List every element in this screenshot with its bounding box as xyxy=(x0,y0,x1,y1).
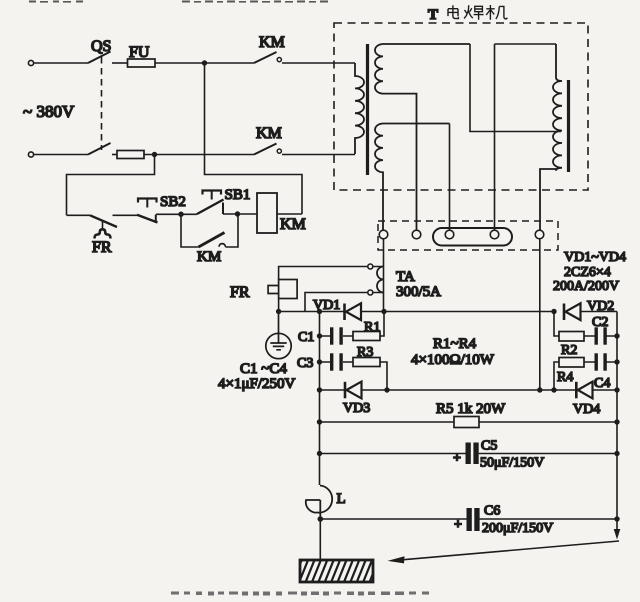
snubber branch R3 drop xyxy=(380,362,387,390)
wire FU2 to KM pole2 xyxy=(144,154,254,156)
rail end arrowhead xyxy=(614,529,621,540)
node C6 right junction xyxy=(614,516,619,521)
wire secondary upper to reactor link xyxy=(470,44,561,132)
wire QS2 to FU2 xyxy=(112,154,117,156)
capacitor C1 xyxy=(320,327,354,344)
dashed link of QS poles xyxy=(101,57,103,150)
node C4 rail junction xyxy=(614,359,619,364)
svg-text:KM: KM xyxy=(280,216,306,233)
svg-text:4×1μF/250V: 4×1μF/250V xyxy=(218,376,296,392)
transformer T secondary winding lower xyxy=(375,124,450,231)
capacitor C4 xyxy=(584,353,617,370)
wire bottom bus VD3 row xyxy=(320,389,555,391)
heater element FR xyxy=(268,280,297,299)
wire QS1 to FU1 xyxy=(112,62,128,64)
wire SB1 to node D xyxy=(223,213,257,215)
wire node E to left rail xyxy=(279,311,320,313)
contactor contact KM main pole 2 xyxy=(254,144,281,155)
wire R5 row xyxy=(320,421,618,423)
auxiliary contact KM (self-hold) xyxy=(181,214,199,247)
workpiece hatched plate xyxy=(292,558,379,584)
wire control branch right drop from node A xyxy=(205,63,303,214)
node C junction xyxy=(178,212,183,217)
wire T5 down xyxy=(539,239,541,390)
transformer T secondary winding upper xyxy=(375,44,470,230)
wire L2 to QS xyxy=(34,154,88,156)
svg-text:C1: C1 xyxy=(298,330,314,345)
inductor L welding loop xyxy=(306,486,332,517)
switch QS pole 2 xyxy=(88,143,111,155)
transformer T primary winding xyxy=(355,63,364,154)
terminal 2 xyxy=(412,230,421,239)
svg-text:300/5A: 300/5A xyxy=(396,284,441,300)
svg-text:C2: C2 xyxy=(592,315,608,330)
resistor R1 xyxy=(353,332,380,341)
svg-text:R3: R3 xyxy=(357,345,373,360)
svg-text:50μF/150V: 50μF/150V xyxy=(480,456,544,471)
thermal release symbol FR xyxy=(95,221,111,239)
svg-text:VD3: VD3 xyxy=(343,401,370,416)
terminal L1 xyxy=(28,60,33,65)
diode VD1 xyxy=(345,303,362,320)
node VD2 left junction xyxy=(551,309,556,314)
capacitor C6 electrolytic xyxy=(454,508,480,533)
resistor R4 xyxy=(559,358,584,368)
svg-text:C4: C4 xyxy=(594,376,610,391)
capacitor C2 xyxy=(584,327,617,344)
wire FR to SB2 xyxy=(113,214,138,216)
terminal 1 xyxy=(379,230,388,239)
transformer T core bar left xyxy=(366,44,369,175)
wire coil to right drop xyxy=(277,213,302,215)
svg-text:KM: KM xyxy=(256,125,282,142)
svg-text:VD1: VD1 xyxy=(313,298,340,313)
wire T4 column xyxy=(495,44,557,230)
svg-text:C1 ~C4: C1 ~C4 xyxy=(240,361,287,377)
top cropped caption remnants xyxy=(29,1,328,3)
svg-text:+: + xyxy=(454,518,462,533)
svg-text:QS: QS xyxy=(91,38,111,55)
right rail xyxy=(616,312,618,532)
node C5 left junction xyxy=(317,451,322,456)
node D junction xyxy=(235,211,240,216)
electrode arrow to workpiece xyxy=(388,541,620,563)
capacitor C5 electrolytic xyxy=(453,443,479,467)
resistor R5 xyxy=(454,417,479,428)
node rail-top junction xyxy=(317,309,322,314)
grounding capacitor symbol xyxy=(266,312,291,359)
snubber branch R1 drop xyxy=(380,312,384,337)
node E junction xyxy=(276,309,281,314)
pushbutton SB1 normally open xyxy=(197,191,224,215)
fuse FU2 xyxy=(117,151,144,159)
snubber branch R4 drop xyxy=(554,362,559,390)
svg-text:~ 380V: ~ 380V xyxy=(23,102,75,121)
wire control branch left drop xyxy=(67,155,155,216)
svg-text:200μF/150V: 200μF/150V xyxy=(482,521,553,536)
pushbutton SB2 normally closed xyxy=(137,199,158,223)
svg-text:+: + xyxy=(453,451,461,466)
node B junction xyxy=(152,152,157,157)
current transformer TA secondary xyxy=(368,264,384,295)
wire C5 row xyxy=(320,453,618,455)
wire KM1 to transformer xyxy=(282,62,355,64)
svg-text:VD4: VD4 xyxy=(573,402,600,417)
coil KM xyxy=(257,193,277,233)
wire FR heater down to node E xyxy=(278,299,280,312)
wire KM2 to transformer xyxy=(282,154,355,156)
node R5 left junction xyxy=(317,419,322,424)
svg-text:FR: FR xyxy=(230,284,250,301)
diode VD2 xyxy=(564,303,581,320)
svg-text:SB2: SB2 xyxy=(160,194,186,210)
svg-text:R1~R4: R1~R4 xyxy=(433,336,477,352)
wire top bus VD1 row xyxy=(320,311,555,313)
shorting link stadium xyxy=(433,228,512,246)
node C2 rail junction xyxy=(614,333,619,338)
svg-text:C6: C6 xyxy=(484,504,500,519)
diode VD3 xyxy=(345,382,362,399)
terminal strip dashed box xyxy=(378,221,558,250)
capacitor C3 xyxy=(320,353,354,370)
node C5 right junction xyxy=(614,451,619,456)
svg-text:TA: TA xyxy=(396,269,415,285)
svg-text:C5: C5 xyxy=(481,439,497,454)
terminal 4 xyxy=(490,230,499,239)
svg-text:KM: KM xyxy=(259,34,285,51)
node T5 bottom junction xyxy=(537,387,542,392)
wire VD4 row xyxy=(554,389,617,391)
svg-text:FR: FR xyxy=(92,239,112,256)
left rail xyxy=(319,312,321,486)
reactor core bar right xyxy=(567,80,570,172)
resistor R2 xyxy=(559,332,584,342)
svg-text:SB1: SB1 xyxy=(225,187,251,203)
node TA bus junction xyxy=(381,309,386,314)
diode VD4 xyxy=(576,382,592,399)
node L bottom junction xyxy=(318,516,324,522)
svg-text:R5 1k 20W: R5 1k 20W xyxy=(436,401,506,417)
svg-text:FU: FU xyxy=(129,44,150,61)
wire TA bottom terminal drop xyxy=(305,293,368,312)
svg-text:R2: R2 xyxy=(561,343,577,358)
terminal L2 xyxy=(28,152,33,157)
node VD4 right junction xyxy=(614,387,619,392)
svg-text:KM: KM xyxy=(197,249,221,265)
svg-text:L: L xyxy=(337,491,346,507)
snubber branch R2 drop xyxy=(554,312,559,337)
svg-text:T: T xyxy=(428,7,438,23)
wire T1 down to TA xyxy=(383,239,385,312)
wire FU1 to node A xyxy=(155,62,254,64)
wire electrode drop xyxy=(319,519,321,560)
wire TA top terminal to FR heater xyxy=(279,267,368,280)
node VD3 rail junction xyxy=(317,387,322,392)
svg-text:4×100Ω/10W: 4×100Ω/10W xyxy=(411,352,495,368)
wire VD2 to right rail corner xyxy=(581,311,618,313)
node VD4 left junction xyxy=(551,387,556,392)
node A junction xyxy=(202,60,207,65)
contactor contact KM main pole 1 xyxy=(254,52,281,63)
terminal 5 xyxy=(535,230,544,239)
node C3 rail junction xyxy=(317,359,322,364)
svg-text:2CZ6×4: 2CZ6×4 xyxy=(564,265,611,280)
reactor winding (right) xyxy=(540,44,562,230)
fuse FU1 xyxy=(128,59,156,67)
svg-text:200A/200V: 200A/200V xyxy=(553,279,619,294)
node C1 rail junction xyxy=(317,333,322,338)
thermal relay contact FR xyxy=(90,215,117,227)
wire L1 to QS xyxy=(34,62,88,64)
svg-text:C3: C3 xyxy=(297,356,313,371)
svg-text:R1: R1 xyxy=(364,320,380,335)
resistor R3 xyxy=(353,358,380,367)
bottom cropped caption remnants xyxy=(171,592,429,596)
wire FR left lead xyxy=(67,214,91,216)
wire SB2 to node C xyxy=(156,213,197,215)
svg-text:VD1~VD4: VD1~VD4 xyxy=(564,250,626,265)
terminal 3 xyxy=(445,230,454,239)
svg-text:R4: R4 xyxy=(557,370,573,385)
switch QS pole 1 xyxy=(88,52,111,64)
label T dianhanji xyxy=(428,5,507,23)
node R5 right junction xyxy=(614,419,619,424)
wire C6 row xyxy=(320,518,617,520)
wire T3 column xyxy=(449,124,451,231)
node R3-drop junction xyxy=(384,387,389,392)
enclosure dashed box T welding machine xyxy=(334,23,588,190)
